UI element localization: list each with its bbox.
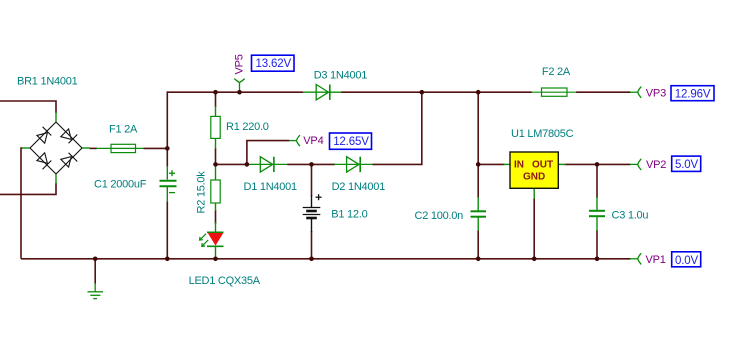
probe VP5 (234, 79, 244, 93)
wire R1 top (215, 92, 217, 107)
probe VP1 (630, 253, 641, 264)
probe VP3 (630, 87, 641, 98)
svg-text:VP3: VP3 (646, 88, 666, 100)
capacitor C3 (589, 197, 605, 231)
svg-text:VP1: VP1 (646, 254, 666, 266)
svg-text:0.0V: 0.0V (675, 255, 699, 267)
svg-text:12.96V: 12.96V (675, 89, 711, 101)
wire C3 to bottom rail (596, 230, 598, 259)
svg-text:C1 2000uF: C1 2000uF (94, 179, 147, 191)
svg-text:VP5: VP5 (234, 54, 246, 74)
wire B1 bottom (311, 231, 313, 259)
diode D2 (334, 157, 373, 172)
svg-text:R1 220.0: R1 220.0 (226, 121, 269, 133)
wire C2 to bottom rail (477, 230, 479, 259)
svg-text:F1 2A: F1 2A (109, 124, 138, 136)
svg-text:VP4: VP4 (303, 135, 323, 147)
bridge pin stubs (22, 112, 91, 184)
wire mid rail R2 to D1 (216, 163, 249, 165)
wire B1 top (311, 164, 313, 196)
svg-text:F2 2A: F2 2A (542, 66, 571, 78)
svg-text:C2 100.0n: C2 100.0n (415, 210, 464, 222)
svg-text:D1 1N4001: D1 1N4001 (244, 181, 298, 193)
svg-text:D3 1N4001: D3 1N4001 (314, 70, 368, 82)
bridge rectifier BR1 (30, 122, 82, 174)
wire R1 bottom (215, 148, 217, 164)
fuse F2 (532, 88, 577, 96)
wire top rail (167, 91, 304, 93)
value box VP4 (330, 133, 372, 149)
wire R2 to LED (215, 210, 217, 224)
capacitor C1 (160, 166, 177, 202)
wire node to top rail riser (166, 91, 168, 148)
wire bridge plus to F1 (90, 147, 98, 149)
resistor R1 (211, 106, 220, 149)
svg-text:R2 15.0k: R2 15.0k (196, 171, 208, 214)
svg-text:IN: IN (514, 160, 524, 171)
wire node to C3 (596, 164, 598, 198)
battery B1 (303, 194, 322, 232)
svg-text:5.0V: 5.0V (675, 159, 699, 171)
wire U1 OUT to VP2 (565, 163, 631, 165)
wire node to C1 (166, 148, 168, 167)
svg-text:BR1 1N4001: BR1 1N4001 (17, 76, 78, 88)
value box VP3 (671, 86, 714, 101)
wire D2 return up to top rail (372, 92, 421, 164)
wire VP4 branch (247, 141, 290, 165)
svg-text:12.65V: 12.65V (333, 136, 369, 148)
probe VP2 (630, 159, 641, 170)
value box VP5 (252, 55, 295, 71)
svg-text:13.62V: 13.62V (256, 58, 292, 70)
capacitor C2 (471, 197, 487, 231)
wire bridge minus to bottom rail (21, 148, 23, 259)
svg-text:D2 1N4001: D2 1N4001 (332, 181, 386, 193)
svg-text:B1 12.0: B1 12.0 (331, 209, 367, 221)
wire ground drop (94, 259, 96, 284)
wire top rail after D3 (341, 91, 532, 93)
value box VP2 (672, 156, 701, 171)
ground (88, 283, 104, 299)
value box VP1 (672, 252, 701, 267)
LED1 (200, 222, 224, 259)
wire node to D2 (312, 163, 336, 165)
wire top rail after F2 (576, 91, 631, 93)
wire D1 to node (287, 163, 311, 165)
wire node to U1 IN (478, 163, 504, 165)
svg-text:LED1 CQX35A: LED1 CQX35A (189, 275, 261, 287)
wire AC input top-left (0, 101, 56, 113)
diode D1 (247, 157, 288, 172)
wire U1 branch riser (477, 92, 479, 164)
resistor R2 (211, 164, 220, 211)
svg-text:OUT: OUT (532, 160, 553, 171)
wire bottom rail (21, 258, 631, 260)
wire AC input bottom-left (0, 183, 56, 194)
fuse F1 (96, 144, 144, 152)
wire U1 GND to bottom rail (533, 198, 535, 259)
wire F1 to node (144, 147, 168, 149)
svg-text:C3 1.0u: C3 1.0u (612, 210, 649, 222)
svg-text:U1 LM7805C: U1 LM7805C (511, 128, 574, 140)
wire C1 to bottom rail (166, 201, 168, 259)
regulator U1 (504, 152, 567, 199)
svg-text:GND: GND (523, 172, 545, 183)
svg-text:VP2: VP2 (646, 159, 666, 171)
probe VP4 (289, 135, 300, 146)
diode D3 (303, 85, 342, 100)
wire node to C2 (477, 164, 479, 198)
